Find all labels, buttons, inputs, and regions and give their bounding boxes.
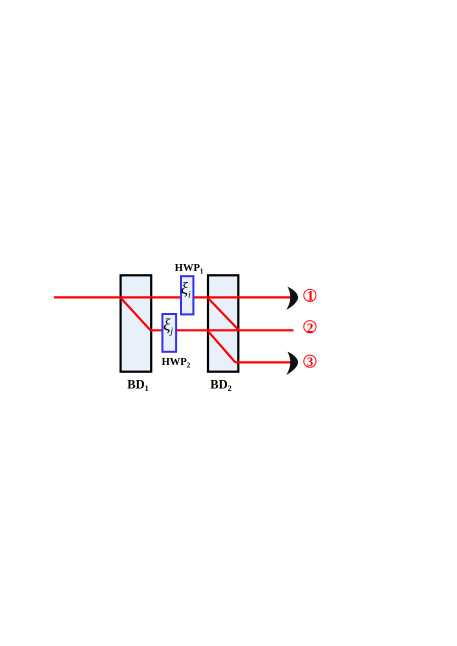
svg-text:HWP1: HWP1 <box>175 263 204 276</box>
svg-text:3: 3 <box>307 354 314 369</box>
svg-text:2: 2 <box>307 320 314 335</box>
svg-text:1: 1 <box>307 289 314 305</box>
svg-text:HWP2: HWP2 <box>162 357 191 370</box>
